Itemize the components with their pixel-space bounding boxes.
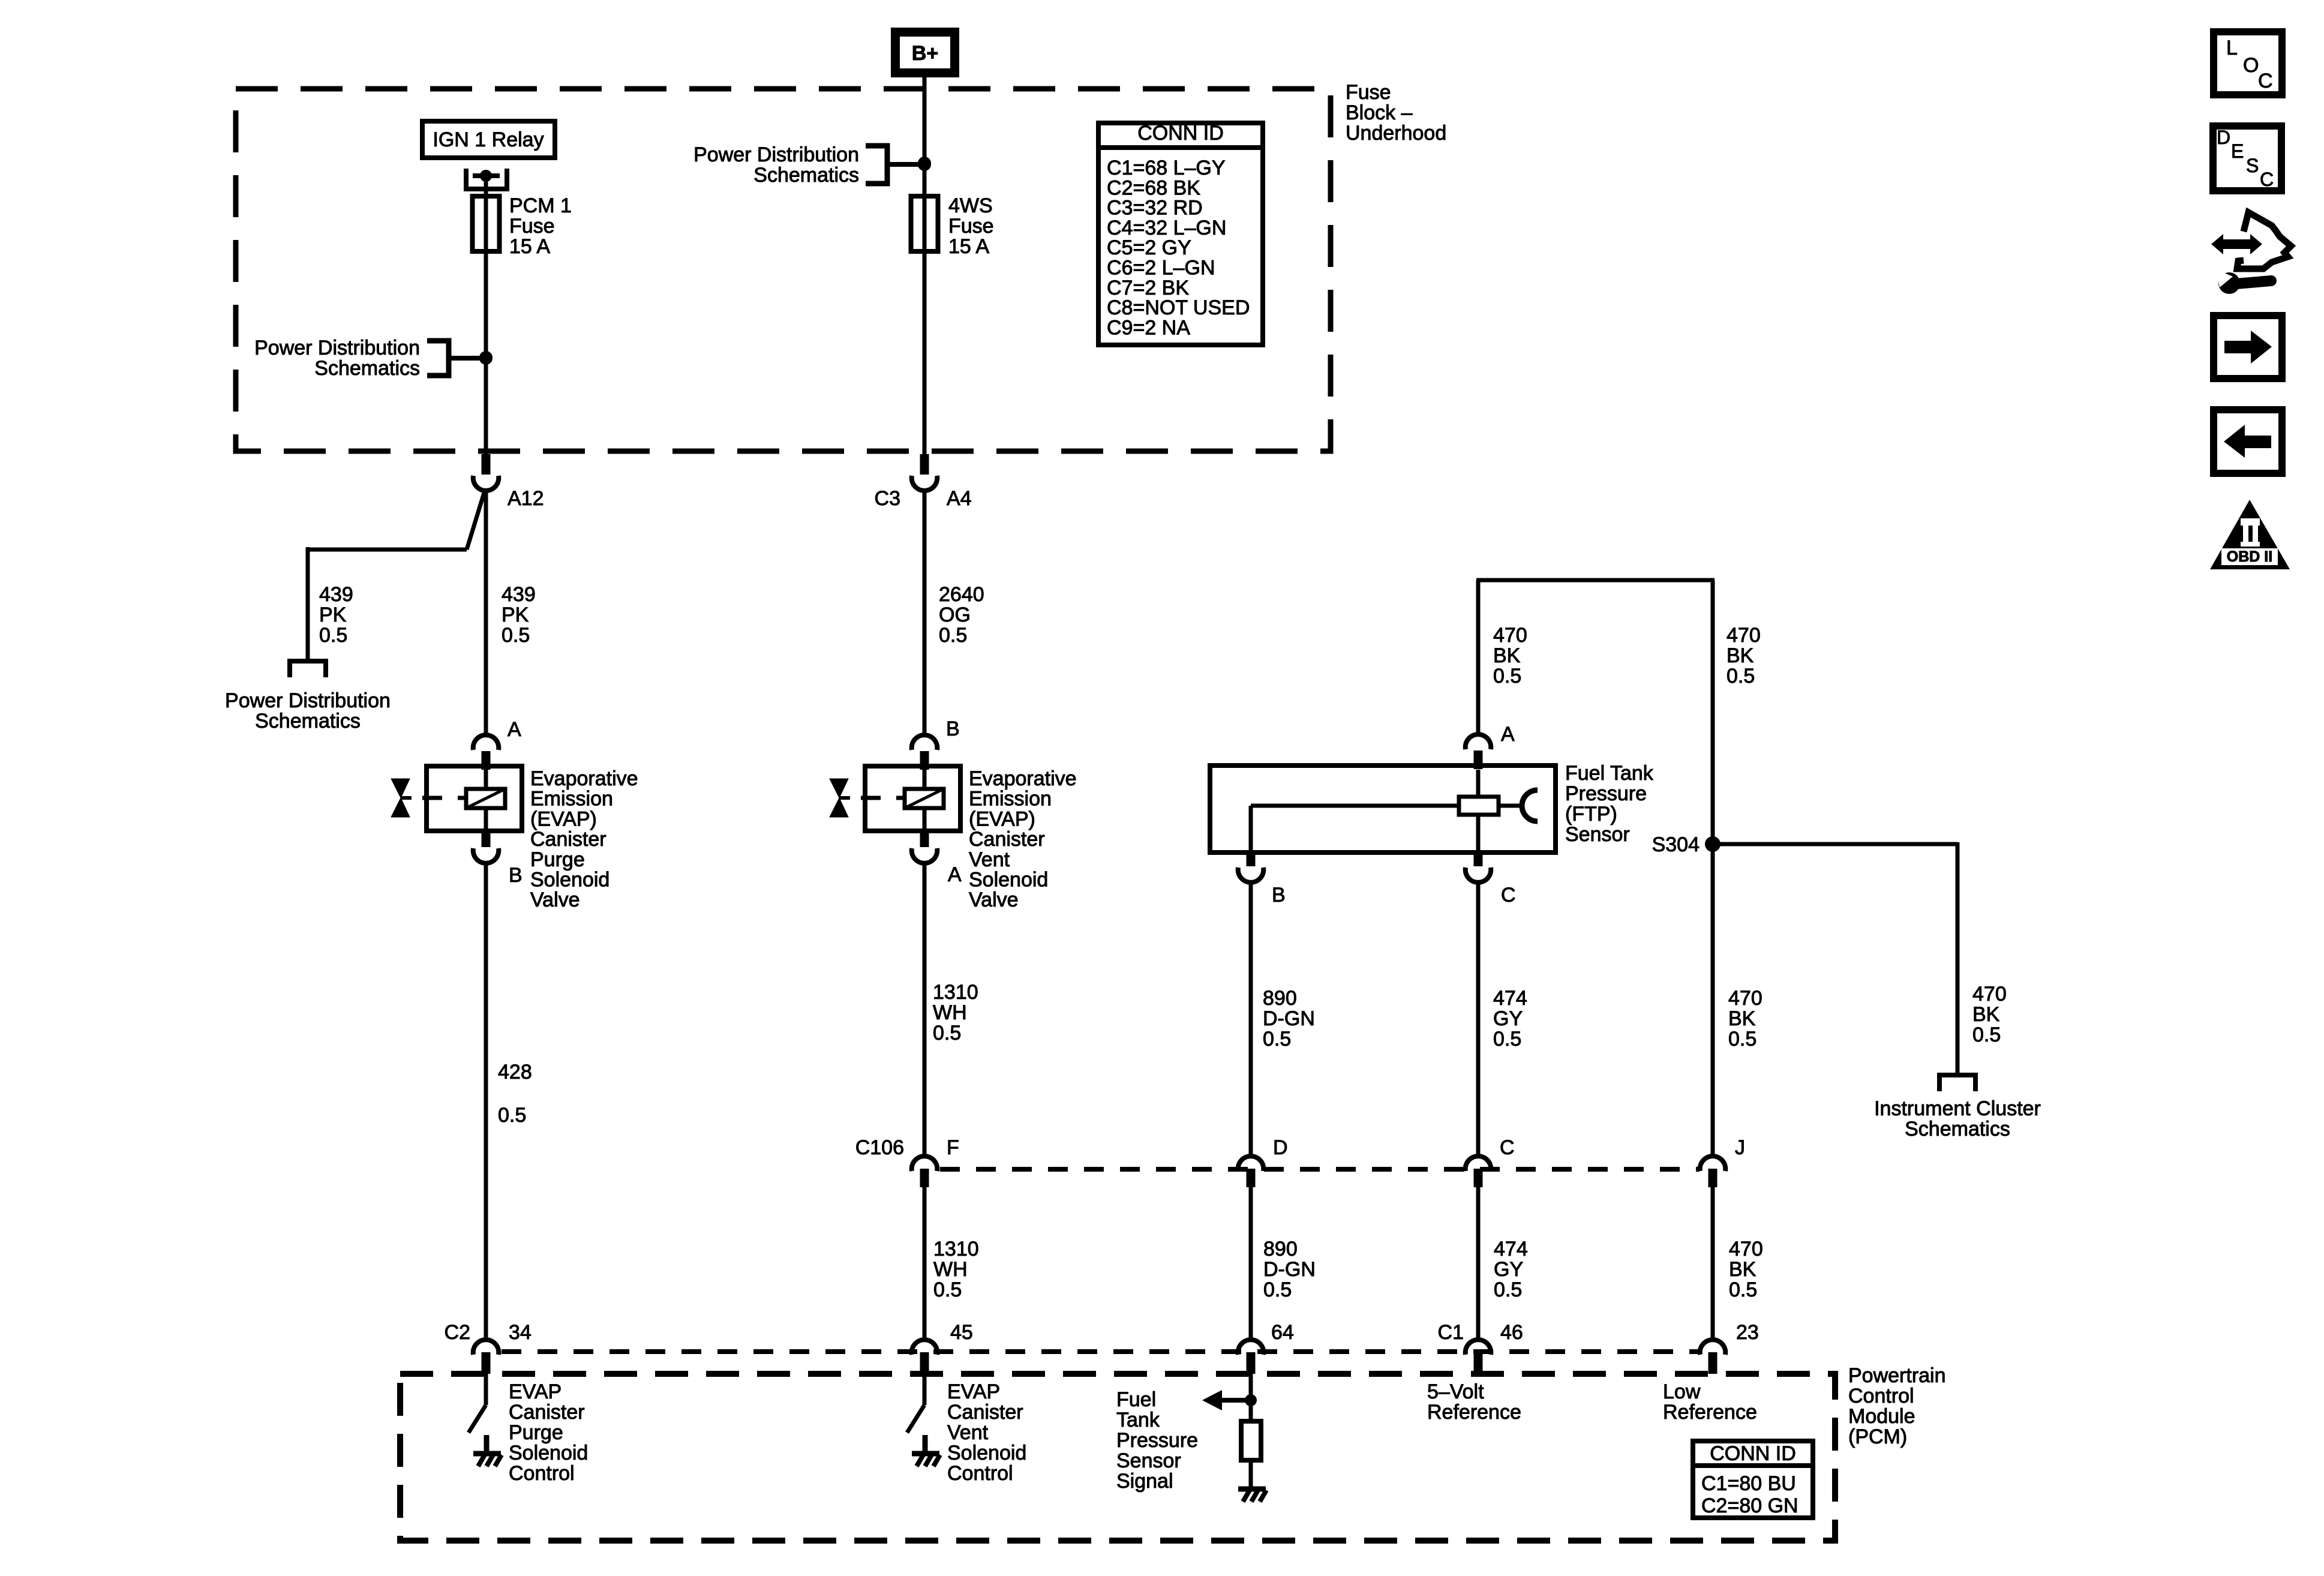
connector FTP pin A <box>1466 734 1491 749</box>
fuse 4WS 15A <box>911 196 938 251</box>
fuse PCM 1 15A <box>473 196 500 251</box>
svg-text:0.5: 0.5 <box>1263 1278 1292 1301</box>
svg-text:Control: Control <box>947 1462 1013 1485</box>
svg-text:474: 474 <box>1493 987 1527 1010</box>
svg-text:890: 890 <box>1263 987 1297 1010</box>
svg-text:Canister: Canister <box>969 828 1045 851</box>
connector PCM pin 64 <box>1238 1340 1264 1355</box>
wire branch horizontal run <box>308 548 467 552</box>
svg-text:Emission: Emission <box>530 788 613 810</box>
svg-text:Tank: Tank <box>1116 1409 1160 1431</box>
svg-text:Module: Module <box>1848 1405 1915 1428</box>
junction: power distribution tap on IGN1 wire <box>479 351 493 364</box>
svg-text:1310: 1310 <box>933 1238 979 1260</box>
relay IGN 1 Relay box <box>422 121 555 158</box>
svg-text:D: D <box>2217 127 2230 148</box>
svg-text:Canister: Canister <box>530 828 606 851</box>
svg-text:(PCM): (PCM) <box>1848 1425 1907 1448</box>
FTP transducer element <box>1459 797 1499 815</box>
splice S304 <box>1705 836 1721 852</box>
svg-text:CONN ID: CONN ID <box>1137 122 1224 145</box>
svg-text:Power Distribution: Power Distribution <box>225 689 391 712</box>
svg-text:Emission: Emission <box>969 788 1052 810</box>
svg-text:O: O <box>2243 54 2259 77</box>
svg-text:0.5: 0.5 <box>933 1022 961 1044</box>
svg-text:428: 428 <box>498 1061 532 1083</box>
svg-text:890: 890 <box>1263 1238 1298 1260</box>
svg-text:439: 439 <box>319 583 353 606</box>
svg-text:Vent: Vent <box>947 1421 989 1444</box>
svg-text:4WS: 4WS <box>948 194 993 217</box>
svg-text:0.5: 0.5 <box>1263 1028 1291 1050</box>
wire 428 (x810) purge valve B to PCM pin 34 <box>484 863 488 1340</box>
svg-text:0.5: 0.5 <box>939 624 967 647</box>
svg-text:Solenoid: Solenoid <box>969 869 1048 891</box>
svg-text:5–Volt: 5–Volt <box>1427 1380 1484 1403</box>
connector PCM pin 23 <box>1700 1340 1726 1355</box>
svg-text:B+: B+ <box>912 42 938 65</box>
svg-text:B: B <box>1272 884 1286 906</box>
FTP internal wiring <box>1476 770 1481 797</box>
solenoid valve: EVAP canister vent: body <box>865 766 960 831</box>
svg-text:OBD II: OBD II <box>2227 548 2272 565</box>
connector C106 cavity J <box>1700 1156 1726 1171</box>
solenoid valve: EVAP canister purge: pin A connector <box>473 735 499 750</box>
svg-text:C9=2 NA: C9=2 NA <box>1107 316 1190 339</box>
icon box left arrow <box>2214 410 2282 473</box>
svg-text:Low: Low <box>1663 1380 1701 1403</box>
svg-text:0.5: 0.5 <box>1493 1028 1521 1050</box>
svg-text:Instrument Cluster: Instrument Cluster <box>1874 1097 2041 1120</box>
svg-text:0.5: 0.5 <box>1728 1028 1756 1050</box>
svg-text:GY: GY <box>1493 1007 1523 1030</box>
wire S304 branch down to instrument cluster <box>1956 842 1960 1075</box>
svg-text:C8=NOT USED: C8=NOT USED <box>1107 296 1250 319</box>
off-page connector to Power Distribution <box>290 661 326 677</box>
svg-text:Canister: Canister <box>509 1401 585 1424</box>
svg-text:474: 474 <box>1494 1238 1528 1260</box>
svg-text:0.5: 0.5 <box>502 624 530 647</box>
svg-text:Solenoid: Solenoid <box>530 869 609 891</box>
svg-text:Powertrain: Powertrain <box>1848 1364 1946 1387</box>
svg-text:Purge: Purge <box>509 1421 563 1444</box>
wire IGN1 feed (x810) relay to connector A12 <box>484 176 488 454</box>
svg-text:S: S <box>2246 155 2259 176</box>
fuse block underhood dashed box <box>236 89 1331 451</box>
svg-text:Solenoid: Solenoid <box>947 1442 1026 1464</box>
svg-text:470: 470 <box>1729 1238 1763 1260</box>
svg-text:BK: BK <box>1727 644 1754 667</box>
solenoid valve: EVAP canister vent: pin A connector <box>912 848 938 863</box>
svg-text:Pressure: Pressure <box>1116 1429 1198 1452</box>
svg-text:C1=68 L–GY: C1=68 L–GY <box>1107 157 1226 179</box>
svg-text:470: 470 <box>1493 624 1527 647</box>
connector A12 (fuse block) <box>482 454 491 475</box>
solenoid valve: EVAP canister vent: pin B connector <box>912 735 938 750</box>
svg-text:2640: 2640 <box>939 583 984 606</box>
icon OBD II triangle <box>2210 500 2290 569</box>
svg-text:Sensor: Sensor <box>1565 823 1630 846</box>
svg-text:C: C <box>1500 1136 1515 1159</box>
relay terminal pin <box>480 170 492 182</box>
svg-text:Solenoid: Solenoid <box>509 1442 588 1464</box>
wire 470 BK (x2464) FTP A up <box>1476 580 1481 735</box>
svg-text:Pressure: Pressure <box>1565 782 1647 805</box>
wire branch diagonal from A12 <box>467 491 485 550</box>
PCM purge solenoid driver (switch to ground) <box>484 1374 488 1405</box>
svg-text:Fuse: Fuse <box>509 215 555 238</box>
svg-text:Schematics: Schematics <box>753 164 859 187</box>
svg-text:WH: WH <box>933 1001 967 1024</box>
svg-text:F: F <box>947 1136 959 1159</box>
svg-text:Schematics: Schematics <box>1905 1118 2010 1140</box>
connector C106 cavity F <box>912 1156 938 1171</box>
svg-text:0.5: 0.5 <box>1729 1278 1757 1301</box>
wire 474 GY (x2464) FTP C to C106 C <box>1476 882 1481 1157</box>
svg-text:439: 439 <box>502 583 536 606</box>
svg-text:S304: S304 <box>1652 833 1700 856</box>
svg-text:64: 64 <box>1271 1321 1294 1344</box>
PCM vent solenoid driver (switch to ground) <box>923 1374 927 1405</box>
svg-text:C6=2 L–GN: C6=2 L–GN <box>1107 257 1215 280</box>
svg-text:Reference: Reference <box>1663 1401 1757 1424</box>
svg-text:Evaporative: Evaporative <box>530 767 638 790</box>
table CONN ID (PCM) <box>1693 1441 1813 1518</box>
svg-text:470: 470 <box>1972 983 2007 1005</box>
svg-text:IGN 1 Relay: IGN 1 Relay <box>433 128 544 151</box>
ground (vent driver) <box>912 1451 939 1457</box>
connector C106 cavity C <box>1466 1156 1491 1171</box>
svg-text:Vent: Vent <box>969 848 1010 871</box>
junction: power distribution tap on B+ wire <box>918 157 931 170</box>
svg-text:Signal: Signal <box>1116 1470 1173 1493</box>
B+ battery feed symbol <box>891 28 959 77</box>
svg-text:Control: Control <box>1848 1385 1914 1407</box>
ground (FTP signal network) <box>1238 1487 1266 1492</box>
svg-text:L: L <box>2226 37 2238 59</box>
svg-text:Fuel Tank: Fuel Tank <box>1565 762 1654 785</box>
svg-text:BK: BK <box>1728 1007 1756 1030</box>
svg-text:C: C <box>2258 70 2273 92</box>
svg-text:C: C <box>1501 884 1516 906</box>
svg-text:C3=32 RD: C3=32 RD <box>1107 197 1203 220</box>
callout bracket: Power Distribution Schematics (left) <box>427 341 449 376</box>
svg-text:PK: PK <box>319 604 347 626</box>
svg-text:(FTP): (FTP) <box>1565 803 1617 825</box>
svg-text:0.5: 0.5 <box>1494 1278 1522 1301</box>
wire 474 GY (x2464) C106 C to PCM 46 <box>1476 1187 1481 1340</box>
resistor (PCM pull-up) <box>1241 1421 1261 1460</box>
wire B+ feed (x1541) from B+ to connector A4 <box>923 77 927 454</box>
svg-text:WH: WH <box>933 1258 968 1281</box>
svg-text:GY: GY <box>1494 1258 1523 1281</box>
svg-text:0.5: 0.5 <box>1972 1023 2001 1046</box>
svg-text:Schematics: Schematics <box>255 710 361 733</box>
solenoid valve: EVAP canister vent: valve symbol <box>830 779 848 798</box>
svg-text:CONN ID: CONN ID <box>1710 1442 1796 1465</box>
svg-text:15 A: 15 A <box>509 235 550 258</box>
svg-text:OG: OG <box>939 604 971 626</box>
connector FTP pin C <box>1474 851 1483 866</box>
svg-text:Valve: Valve <box>530 888 580 911</box>
wire 1310 WH (x1541) C106 F to PCM 45 <box>923 1187 927 1340</box>
icon box DESC <box>2213 126 2281 191</box>
PCM dashed box <box>400 1374 1835 1541</box>
svg-text:A: A <box>1501 723 1515 746</box>
wire 1310 WH (x1541) vent valve A to C106 F <box>923 863 927 1157</box>
svg-text:34: 34 <box>509 1321 532 1344</box>
solenoid valve: EVAP canister purge: body <box>427 766 522 831</box>
svg-text:Underhood: Underhood <box>1346 122 1446 145</box>
svg-text:B: B <box>509 864 523 887</box>
svg-text:B: B <box>946 718 960 740</box>
connector PCM pin 34 <box>473 1340 499 1355</box>
svg-text:Sensor: Sensor <box>1116 1449 1181 1472</box>
relay output terminal (fuse block cavity) <box>464 169 509 189</box>
connector PCM pin 45 <box>912 1340 938 1355</box>
svg-text:PK: PK <box>502 604 529 626</box>
connector line C1/C2 at PCM <box>502 1349 1700 1354</box>
solenoid valve: EVAP canister purge: pin B stub <box>482 828 491 847</box>
svg-text:C1: C1 <box>1438 1321 1464 1344</box>
wire branch drop to off-page <box>306 547 310 659</box>
svg-text:BK: BK <box>1493 644 1521 667</box>
svg-text:D-GN: D-GN <box>1263 1258 1316 1281</box>
svg-text:46: 46 <box>1500 1321 1523 1344</box>
svg-text:0.5: 0.5 <box>1727 665 1755 688</box>
svg-text:D-GN: D-GN <box>1263 1007 1315 1030</box>
svg-text:Canister: Canister <box>947 1401 1023 1424</box>
connector FTP pin B <box>1247 851 1256 866</box>
svg-text:470: 470 <box>1728 987 1762 1010</box>
svg-text:0.5: 0.5 <box>933 1278 962 1301</box>
svg-text:C2=68 BK: C2=68 BK <box>1107 176 1200 199</box>
svg-text:C2=80 GN: C2=80 GN <box>1701 1494 1798 1517</box>
svg-text:Schematics: Schematics <box>314 357 420 380</box>
svg-text:BK: BK <box>1972 1003 2000 1026</box>
wire 2640 OG (x1541) to vent valve <box>923 490 927 736</box>
svg-text:A12: A12 <box>508 487 544 510</box>
solenoid valve: EVAP canister vent: pin A stub <box>920 828 929 847</box>
svg-text:0.5: 0.5 <box>1493 665 1521 688</box>
svg-text:Fuse: Fuse <box>948 215 994 238</box>
wire 470 BK (x2855) C106 J to PCM 23 <box>1711 1187 1715 1340</box>
solenoid valve: EVAP canister purge: linkage <box>422 796 466 800</box>
connector PCM pin 46 <box>1466 1340 1491 1355</box>
wire S304 branch horizontal <box>1713 842 1957 846</box>
solenoid valve: EVAP canister vent: linkage <box>861 796 905 800</box>
solenoid valve: EVAP canister purge: solenoid coil <box>466 789 505 808</box>
solenoid valve: EVAP canister purge: pin B connector <box>473 848 499 863</box>
wire 890 D-GN (x2085) C106 D to PCM 64 <box>1249 1187 1253 1340</box>
svg-text:C3: C3 <box>875 487 900 510</box>
svg-text:C1=80 BU: C1=80 BU <box>1701 1472 1796 1495</box>
svg-text:Control: Control <box>509 1462 575 1485</box>
svg-text:C: C <box>2260 169 2274 190</box>
solenoid valve: EVAP canister vent: solenoid coil <box>905 789 944 808</box>
svg-text:C5=2 GY: C5=2 GY <box>1107 236 1191 259</box>
wire 439 PK (x810) to purge valve <box>484 490 488 736</box>
sensor: Fuel Tank Pressure (FTP) box <box>1210 766 1556 852</box>
svg-text:15 A: 15 A <box>948 235 989 258</box>
table CONN ID (fuse block) <box>1098 123 1263 345</box>
svg-text:D: D <box>1273 1136 1288 1159</box>
svg-text:Purge: Purge <box>530 848 585 871</box>
svg-text:Reference: Reference <box>1427 1401 1521 1424</box>
solenoid valve: EVAP canister purge: valve symbol <box>391 779 410 798</box>
connector C106 line <box>940 1167 1700 1172</box>
svg-text:(EVAP): (EVAP) <box>530 807 597 830</box>
svg-text:Power Distribution: Power Distribution <box>693 143 859 166</box>
svg-text:Block –: Block – <box>1346 101 1413 124</box>
svg-text:0.5: 0.5 <box>498 1104 526 1127</box>
svg-text:EVAP: EVAP <box>947 1380 1000 1403</box>
svg-text:BK: BK <box>1729 1258 1756 1281</box>
junction at FTP signal <box>1245 1394 1257 1406</box>
icon box LOC <box>2214 32 2282 95</box>
svg-text:0.5: 0.5 <box>319 624 347 647</box>
svg-text:Valve: Valve <box>969 888 1019 911</box>
wire 890 D-GN (x2085) FTP B to C106 D <box>1249 882 1253 1157</box>
svg-text:A: A <box>948 863 962 886</box>
svg-text:J: J <box>1735 1136 1745 1159</box>
wire 470 BK top horizontal link <box>1476 578 1715 583</box>
svg-text:C106: C106 <box>855 1136 904 1159</box>
svg-text:EVAP: EVAP <box>509 1380 562 1403</box>
PCM FTP signal input circuit <box>1249 1374 1253 1421</box>
ground (purge driver) <box>473 1451 501 1457</box>
svg-text:C4=32 L–GN: C4=32 L–GN <box>1107 217 1226 239</box>
connector C106 cavity D <box>1238 1156 1264 1171</box>
svg-text:1310: 1310 <box>933 981 978 1004</box>
svg-text:Fuse: Fuse <box>1346 81 1391 104</box>
svg-text:(EVAP): (EVAP) <box>969 807 1035 830</box>
svg-text:Fuel: Fuel <box>1116 1388 1156 1411</box>
svg-text:PCM 1: PCM 1 <box>509 194 572 217</box>
icon box right arrow <box>2214 316 2282 379</box>
svg-text:A: A <box>508 718 521 741</box>
svg-text:C7=2 BK: C7=2 BK <box>1107 277 1189 299</box>
callout bracket: Power Distribution Schematics (right) <box>866 146 887 184</box>
svg-text:Power Distribution: Power Distribution <box>254 337 420 359</box>
svg-text:470: 470 <box>1727 624 1761 647</box>
svg-text:C2: C2 <box>445 1321 470 1344</box>
svg-text:23: 23 <box>1736 1321 1759 1344</box>
svg-text:Evaporative: Evaporative <box>969 767 1077 790</box>
svg-text:A4: A4 <box>947 487 972 510</box>
wire 470 BK (x2855) down to C106 J <box>1711 580 1715 1157</box>
connector C3 / A4 (fuse block) <box>920 454 929 475</box>
svg-text:E: E <box>2231 140 2244 162</box>
icon: adjust/repair (arrow, hand outline, wrench) <box>2220 239 2254 249</box>
off-page connector to Instrument Cluster <box>1939 1075 1975 1091</box>
svg-text:45: 45 <box>950 1321 973 1344</box>
